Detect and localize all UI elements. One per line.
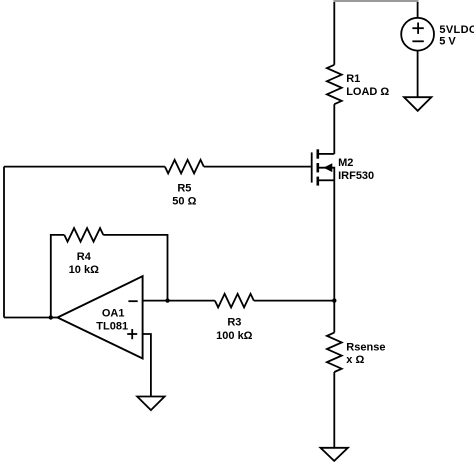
- wire R4 to inverting node: [103, 235, 167, 301]
- svg-text:M2: M2: [338, 157, 353, 169]
- svg-text:R3: R3: [227, 317, 241, 329]
- node A junction dot (op-amp output / R4 tap): [49, 315, 53, 319]
- svg-text:50 Ω: 50 Ω: [172, 196, 196, 208]
- svg-text:Rsense: Rsense: [346, 341, 385, 353]
- wire R4 feedback left vertical: [51, 235, 65, 318]
- svg-text:OA1: OA1: [102, 308, 125, 320]
- ground GND2 (bottom right): [321, 448, 348, 461]
- wire inverting input row: [143, 300, 215, 302]
- svg-text:R1: R1: [346, 73, 360, 85]
- V1 minus symbol: [412, 40, 423, 42]
- wire R3 to source column: [254, 300, 334, 302]
- ground GND3 (op-amp + input): [137, 397, 164, 411]
- wire R1 to drain: [333, 104, 335, 154]
- resistor R3 zigzag: [215, 294, 254, 308]
- wire op-amp output row: [4, 317, 58, 319]
- wire non-inverting input to ground: [143, 334, 151, 397]
- transistor M2 body arrow shaft: [319, 168, 335, 181]
- wire Rsense bottom lead: [333, 372, 335, 448]
- wire R5 to gate: [204, 166, 311, 168]
- svg-text:LOAD Ω: LOAD Ω: [346, 86, 389, 98]
- svg-text:x Ω: x Ω: [346, 354, 364, 366]
- resistor Rsense zigzag: [327, 333, 342, 372]
- ground GND1 (below V1): [404, 97, 431, 111]
- transistor M2 source lead: [319, 179, 335, 181]
- wire R1 top lead: [333, 2, 335, 65]
- svg-text:IRF530: IRF530: [338, 170, 374, 182]
- svg-text:10 kΩ: 10 kΩ: [69, 264, 99, 276]
- resistor R1 zigzag: [327, 65, 342, 104]
- svg-text:5 V: 5 V: [439, 36, 456, 48]
- svg-text:100 kΩ: 100 kΩ: [216, 330, 253, 342]
- transistor M2 channel segments: [316, 149, 319, 185]
- svg-text:R5: R5: [177, 183, 191, 195]
- resistor R5 zigzag: [165, 160, 204, 174]
- resistor R4 zigzag: [64, 228, 103, 242]
- op-amp OA1 triangle: [58, 276, 143, 358]
- wire V1 bottom lead: [417, 51, 419, 98]
- wire gate row with R5 from left rail: [4, 166, 165, 168]
- svg-text:TL081: TL081: [96, 320, 128, 332]
- wire source column down to Rsense: [333, 180, 335, 332]
- node C junction dot (R3 / source column): [332, 298, 336, 302]
- wire top rail (clipped at image top, renders gray): [333, 0, 418, 2]
- transistor M2 body arrowhead: [326, 165, 332, 171]
- node B junction dot (inverting input / R4 / R3): [165, 298, 169, 302]
- OA1 non-inverting input plus symbol: [127, 329, 137, 339]
- OA1 inverting input minus symbol: [128, 300, 137, 302]
- svg-text:R4: R4: [77, 251, 92, 263]
- wire V1 top lead: [417, 2, 419, 18]
- wire left rail vertical: [3, 167, 5, 318]
- transistor M2 drain lead: [319, 153, 335, 155]
- svg-text:5VLDO: 5VLDO: [439, 24, 474, 36]
- voltage source V1 5VLDO circle: [401, 18, 434, 51]
- transistor M2 gate bar: [311, 152, 313, 182]
- V1 plus symbol: [412, 23, 423, 34]
